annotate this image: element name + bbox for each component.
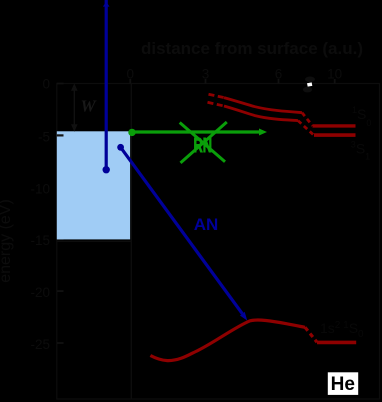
svg-text:-10: -10 [30, 181, 50, 196]
svg-text:-20: -20 [30, 285, 50, 300]
marker shadow blobs [305, 77, 315, 83]
band bottom line [57, 240, 132, 242]
x-axis ticks [130, 79, 334, 84]
svg-text:W: W [80, 97, 97, 116]
x tick labels [127, 67, 343, 82]
He ground curve [150, 320, 305, 361]
He* lower flat line [314, 133, 356, 137]
svg-text:0: 0 [42, 77, 50, 92]
He ground step dashes [305, 327, 317, 342]
svg-text:-25: -25 [30, 337, 50, 352]
svg-text:1s2 1S0: 1s2 1S0 [320, 320, 364, 340]
He label box [328, 372, 358, 395]
svg-text:3: 3 [202, 67, 210, 82]
svg-text:-5: -5 [38, 129, 50, 144]
He* upper flat line [313, 124, 356, 127]
svg-text:6: 6 [275, 67, 283, 82]
svg-text:3S1: 3S1 [351, 140, 370, 162]
svg-text:distance from surface (a.u.): distance from surface (a.u.) [141, 39, 363, 58]
metal filled band rectangle [57, 131, 130, 239]
white marker [307, 82, 312, 86]
y tick labels [30, 77, 50, 353]
-5 tick over rectangle [57, 134, 64, 136]
svg-text:10: 10 [327, 67, 342, 82]
svg-text:-15: -15 [30, 233, 50, 248]
ion level vertical arrow [103, 0, 110, 173]
svg-text:AN: AN [194, 215, 219, 234]
plot frame [57, 84, 380, 400]
svg-text:0: 0 [127, 67, 135, 82]
He* upper curve solid [224, 98, 302, 113]
He* lower curve step dashes [298, 121, 314, 135]
He* upper curve step dashes [302, 113, 313, 126]
svg-text:He: He [331, 374, 355, 395]
He* lower curve left dashes [208, 102, 225, 106]
RN cross-out X [180, 122, 227, 163]
AN arrow diagonal [117, 144, 247, 321]
y-axis ticks [57, 84, 64, 344]
svg-text:RN: RN [194, 135, 213, 157]
surface line [130, 84, 132, 400]
work function arrow W [72, 85, 76, 130]
He* upper curve left dashes [209, 94, 225, 97]
He* lower curve solid [224, 106, 298, 121]
He ground flat line [317, 341, 356, 345]
svg-text:energy (eV): energy (eV) [0, 199, 14, 283]
green RN arrow [128, 129, 267, 137]
